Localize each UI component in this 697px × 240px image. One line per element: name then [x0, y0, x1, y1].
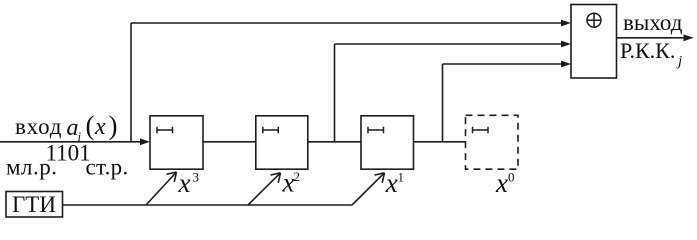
svg-text:ст.р.: ст.р.: [86, 155, 129, 180]
flip-flop x3 box: [150, 116, 203, 169]
arrowhead XOR input 1: [561, 20, 571, 27]
svg-text:(: (: [86, 111, 95, 141]
open arrowhead clock d2: [271, 173, 281, 183]
svg-text:): ): [109, 111, 118, 141]
svg-text:x: x: [385, 168, 398, 198]
svg-text:Р.К.К.: Р.К.К.: [620, 38, 675, 63]
arrowhead output: [684, 34, 694, 41]
svg-text:j: j: [676, 54, 682, 70]
flip-flop x2 box: [256, 116, 308, 169]
open arrowhead clock d3: [375, 173, 385, 183]
delay symbol in x3: [157, 127, 173, 133]
svg-text:3: 3: [193, 170, 200, 185]
delay symbol in x2: [263, 127, 279, 133]
svg-text:0: 0: [508, 170, 515, 185]
wire clock diagonal d1 to x3: [146, 172, 177, 205]
wire output from XOR: [617, 37, 688, 39]
flip-flop x0 box (dashed, absent stage): [466, 115, 519, 169]
svg-text:выход: выход: [623, 10, 683, 35]
wire tap3 vertical at node between x1 and x0: [442, 64, 444, 142]
arrowhead XOR input 2: [561, 41, 571, 48]
svg-text:1: 1: [398, 170, 405, 185]
svg-text:2: 2: [294, 169, 301, 184]
flip-flop x1 box: [361, 116, 414, 169]
wire W2 to XOR input 2: [335, 43, 564, 45]
svg-text:x: x: [495, 168, 508, 198]
svg-text:мл.р.: мл.р.: [6, 155, 58, 180]
wire clock diagonal d3 to x1: [352, 173, 385, 205]
xor block U1: [571, 5, 617, 79]
wire input line: [0, 141, 144, 143]
arrowhead XOR input 3: [561, 61, 571, 68]
wire W3 to XOR input 3: [443, 63, 564, 65]
svg-text:x: x: [94, 114, 106, 140]
open arrowhead clock d1: [167, 172, 177, 182]
delay symbol in x0: [473, 127, 489, 133]
arrowhead into flip-flop x3: [140, 138, 150, 145]
wire clock diagonal d2 to x2: [248, 173, 281, 205]
xor symbol: [587, 13, 602, 28]
svg-text:вход: вход: [15, 114, 62, 139]
clock generator GTI box: [6, 192, 63, 218]
wire feedback tap vertical from input line: [130, 23, 132, 142]
delay symbol in x1: [368, 127, 384, 133]
wire clock line from GTI: [63, 204, 353, 206]
wire shift segment x2 to x1: [308, 141, 361, 143]
wire tap2 vertical at node between x2 and x1: [334, 44, 336, 142]
wire shift segment x1 to x0: [414, 141, 466, 143]
wire W1 to XOR input 1: [131, 22, 563, 24]
wire shift segment x3 to x2: [203, 141, 256, 143]
svg-text:ГТИ: ГТИ: [12, 192, 56, 217]
svg-text:x: x: [178, 168, 191, 198]
